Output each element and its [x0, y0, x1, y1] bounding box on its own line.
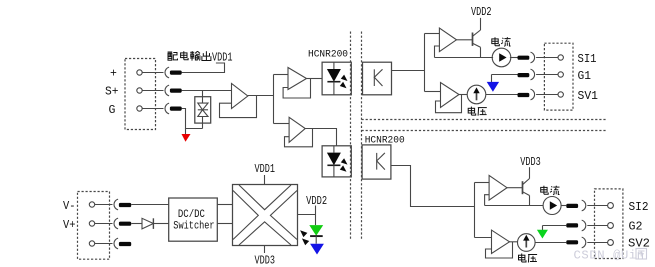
- terminal G2: [608, 223, 614, 229]
- node branch A/B: [424, 34, 426, 92]
- label SV1: [578, 90, 599, 103]
- watermark: [574, 249, 647, 263]
- wire G1: [492, 74, 518, 76]
- ground secondary1 (blue): [491, 75, 493, 83]
- wire to op-amp D: [475, 237, 492, 239]
- wire VDD2 vertical: [315, 206, 317, 226]
- label VDD1 (transformer): [255, 163, 276, 176]
- node branch C/D: [474, 183, 476, 238]
- op-amp B voltage follower ch1: [441, 83, 460, 108]
- svg-text:V-: V-: [63, 200, 76, 213]
- wire to G2 terminal: [587, 225, 607, 227]
- photodiode symbol ch2: [377, 153, 385, 170]
- connector pin V-: [119, 203, 131, 207]
- ground secondary2 (green): [542, 226, 544, 231]
- label VDD2: [471, 6, 492, 19]
- label G2: [629, 221, 643, 234]
- label dianliu ch2 (current): [541, 186, 560, 195]
- connector socket NC: [114, 238, 118, 249]
- wire B out: [459, 94, 467, 96]
- svg-text:HCNR200: HCNR200: [308, 49, 348, 61]
- connector pin G: [170, 107, 182, 111]
- wire base Q2: [507, 187, 523, 189]
- wire CS1 to pin: [510, 57, 518, 59]
- transformer T1: [233, 185, 298, 246]
- op-amp U3 LED driver 2: [289, 117, 305, 142]
- wire U3 out to LED2: [305, 129, 336, 146]
- wire U1 output: [248, 95, 274, 97]
- stub VDD1: [264, 175, 266, 185]
- photodiode symbol ch1: [374, 69, 382, 86]
- LED emission arrows ch2: [341, 158, 348, 164]
- terminal block J1 (dashed): [125, 59, 156, 130]
- wire to G1 terminal: [536, 74, 558, 76]
- wire G run: [182, 109, 203, 129]
- wire to op-amp B: [425, 91, 441, 93]
- label dianya ch2 (voltage): [519, 254, 538, 263]
- terminal block J2 (dashed): [544, 43, 573, 110]
- wire to U2: [274, 74, 289, 76]
- svg-text:Switcher: Switcher: [173, 220, 214, 232]
- svg-text:SI1: SI1: [578, 53, 597, 66]
- label SI1: [578, 53, 597, 66]
- wire photodiode ch2 out: [391, 166, 475, 207]
- optocoupler LED box ch2: [322, 146, 351, 177]
- optocoupler photodiode box ch2: [362, 145, 391, 179]
- terminal G1: [558, 72, 563, 77]
- terminal pin G: [137, 106, 142, 111]
- wire B feedback: [436, 95, 462, 113]
- wire base Q1: [457, 39, 473, 41]
- DC/DC switcher U4: [169, 198, 218, 241]
- svg-text:G1: G1: [578, 70, 592, 83]
- svg-text:S+: S+: [105, 86, 119, 99]
- optocoupler LED box ch1: [322, 62, 351, 95]
- terminal pin S+: [137, 88, 142, 93]
- wire photodiode ch1 out: [392, 70, 425, 72]
- wire to SI1 terminal: [536, 57, 558, 59]
- wire D out: [510, 241, 518, 243]
- label VDD2 (led): [306, 195, 327, 208]
- connector socket V+: [114, 218, 118, 229]
- current source CS1: [492, 48, 511, 67]
- wire + pin to connector: [142, 72, 163, 74]
- wire A feedback: [435, 46, 440, 58]
- wire V+ to diode: [131, 223, 142, 225]
- wire G pin to connector: [142, 108, 163, 110]
- label +: [110, 68, 117, 81]
- label G: [109, 104, 116, 117]
- label V-: [63, 200, 76, 213]
- svg-text:V+: V+: [63, 219, 76, 232]
- section divider ch1: [362, 119, 607, 121]
- label HCNR200 (ch1): [308, 49, 348, 61]
- label VDD3 (transformer): [255, 255, 276, 267]
- label G1: [578, 70, 592, 83]
- terminal pin V+: [89, 221, 94, 226]
- terminal SI2: [608, 203, 614, 209]
- wire V- pin: [95, 204, 113, 206]
- terminal pin NC: [89, 241, 94, 246]
- op-amp U2 LED driver 1: [288, 68, 307, 90]
- voltage source VS1: [467, 85, 486, 104]
- isolation barrier left: [350, 32, 352, 241]
- label dianya ch1 (voltage): [468, 107, 487, 116]
- connector pin SV1: [518, 93, 530, 97]
- current source CS2: [543, 197, 561, 215]
- connector socket SV2: [582, 237, 586, 248]
- svg-text:VDD1: VDD1: [255, 163, 276, 176]
- svg-text:VDD2: VDD2: [306, 195, 327, 208]
- LED arrows: [300, 230, 307, 237]
- wire VDD2 collector: [480, 18, 482, 30]
- wire to SV2 terminal: [587, 242, 607, 244]
- wire VS2 to pin: [535, 242, 567, 244]
- connector socket +: [165, 67, 169, 78]
- svg-text:+: +: [110, 68, 117, 81]
- node branch to U2/U3: [273, 75, 275, 124]
- wire DCDC out2: [217, 223, 232, 225]
- connector socket SI2: [582, 200, 586, 211]
- wire + output to VDD1 tap: [182, 63, 225, 73]
- stub VDD3: [264, 246, 266, 254]
- svg-text:SV1: SV1: [578, 90, 599, 103]
- transistor Q2: [522, 181, 524, 194]
- label dianliu ch1 (current): [492, 37, 511, 46]
- wire to SV1 terminal: [536, 94, 558, 96]
- svg-text:VDD3: VDD3: [520, 156, 541, 169]
- TVS D1: [202, 91, 204, 97]
- wire to SI2 terminal: [587, 205, 608, 207]
- connector pin SI2: [566, 204, 578, 208]
- wire G2: [543, 225, 567, 227]
- section divider ch2: [362, 130, 607, 132]
- wire V- to DCDC: [131, 204, 169, 206]
- wire to op-amp A: [425, 33, 440, 35]
- label SI2: [629, 201, 649, 214]
- LED emission arrows ch1: [341, 75, 348, 81]
- op-amp A current stage ch1: [439, 28, 456, 52]
- wire emitter rail ch1: [435, 57, 494, 59]
- terminal block J4 (dashed): [78, 192, 110, 260]
- connector socket G1: [531, 69, 535, 80]
- terminal SV1: [558, 92, 563, 97]
- op-amp U1 input buffer: [232, 84, 248, 109]
- terminal block J3 (dashed): [595, 189, 623, 259]
- op-amp C current stage ch2: [489, 175, 507, 200]
- LED indicator (green): [309, 225, 323, 236]
- op-amp D voltage follower ch2: [492, 230, 510, 253]
- wire U2 feedback: [283, 79, 310, 99]
- wire VS1 to pin: [486, 94, 518, 96]
- transistor Q1: [472, 33, 474, 46]
- wire U1 feedback: [220, 96, 257, 118]
- connector socket V-: [114, 199, 118, 210]
- LED D2: [333, 62, 335, 69]
- connector pin +: [170, 71, 182, 75]
- wire U3 feedback: [285, 129, 313, 147]
- connector pin G1: [518, 73, 530, 77]
- svg-text:VDD1: VDD1: [212, 52, 233, 65]
- connector pin G2: [566, 223, 578, 227]
- terminal pin V-: [89, 202, 94, 207]
- label VDD3 (ch2): [520, 156, 541, 169]
- optocoupler photodiode box ch1: [363, 62, 392, 95]
- diode D3: [142, 218, 153, 229]
- connector socket G: [165, 103, 169, 114]
- connector socket SI1: [531, 52, 535, 63]
- connector socket G2: [582, 220, 586, 231]
- connector pin SV2: [566, 240, 578, 244]
- connector socket S+: [165, 85, 169, 96]
- wire U2 out to LED: [307, 78, 323, 80]
- ground primary (red): [185, 129, 187, 135]
- wire DCDC out1: [217, 204, 232, 206]
- wire CS2 to pin: [561, 205, 567, 207]
- label V+: [63, 219, 76, 232]
- voltage source VS2: [518, 234, 536, 252]
- wire S+ to opamp U1: [182, 90, 232, 92]
- svg-text:CSDN @Uin: CSDN @Uin: [574, 249, 645, 263]
- connector pin S+: [170, 89, 182, 93]
- wire S+ pin to connector: [142, 90, 163, 92]
- terminal pin +: [137, 70, 142, 75]
- terminal SI1: [558, 55, 563, 60]
- svg-text:DC/DC: DC/DC: [178, 209, 205, 221]
- wire to op-amp C: [475, 182, 490, 184]
- wire VDD3 collector: [529, 167, 531, 178]
- connector pin NC: [119, 242, 131, 246]
- svg-text:VDD2: VDD2: [471, 6, 492, 19]
- connector socket SV1: [531, 89, 535, 100]
- wire diode to DCDC: [153, 223, 168, 225]
- wire to U3: [274, 123, 290, 125]
- wire V+ pin: [95, 223, 113, 225]
- connector pin SI1: [518, 56, 530, 60]
- label SV2: [628, 237, 650, 250]
- wire D feedback: [486, 242, 513, 258]
- wire emitter rail ch2: [485, 205, 544, 207]
- label HCNR200 (ch2): [365, 135, 405, 147]
- wire NC pin: [95, 243, 113, 245]
- isolation barrier right: [361, 32, 363, 241]
- label S+: [105, 86, 119, 99]
- ground secondary (blue, led): [310, 244, 324, 255]
- wire VDD2 out: [298, 214, 316, 216]
- svg-text:VDD3: VDD3: [255, 255, 276, 267]
- LED D4: [333, 146, 335, 153]
- svg-text:G: G: [109, 104, 116, 117]
- label peidianshuchu VDD1: [168, 51, 233, 64]
- wire C feedback: [485, 195, 490, 206]
- svg-text:G2: G2: [629, 221, 643, 234]
- svg-text:SI2: SI2: [629, 201, 649, 214]
- connector pin V+: [119, 222, 131, 226]
- terminal SV2: [608, 240, 614, 246]
